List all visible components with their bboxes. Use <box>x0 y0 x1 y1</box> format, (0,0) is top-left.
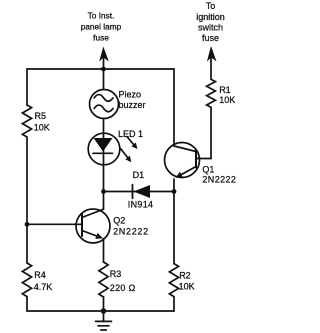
svg-text:ignition: ignition <box>196 12 225 22</box>
svg-text:R4: R4 <box>34 270 46 280</box>
svg-text:10K: 10K <box>179 282 195 292</box>
svg-text:To: To <box>206 1 216 11</box>
svg-text:Q2: Q2 <box>113 215 125 225</box>
svg-text:10K: 10K <box>219 95 235 105</box>
svg-text:buzzer: buzzer <box>119 100 146 110</box>
svg-text:10K: 10K <box>34 123 50 133</box>
svg-text:R1: R1 <box>219 85 231 95</box>
svg-text:220 Ω: 220 Ω <box>110 283 136 293</box>
svg-text:LED 1: LED 1 <box>118 129 143 139</box>
svg-text:R2: R2 <box>179 271 191 281</box>
svg-text:D1: D1 <box>133 170 145 180</box>
svg-text:Piezo: Piezo <box>119 90 142 100</box>
svg-text:R3: R3 <box>110 269 122 279</box>
svg-text:switch: switch <box>198 23 223 33</box>
svg-text:fuse: fuse <box>93 33 109 43</box>
svg-text:IN914: IN914 <box>128 200 154 210</box>
svg-text:R5: R5 <box>35 111 47 121</box>
svg-text:To Inst.: To Inst. <box>88 10 115 20</box>
svg-text:4.7K: 4.7K <box>34 282 53 292</box>
svg-text:panel lamp: panel lamp <box>81 22 122 32</box>
svg-text:Q1: Q1 <box>202 164 214 174</box>
svg-text:2N2222: 2N2222 <box>113 226 149 236</box>
svg-text:fuse: fuse <box>202 33 219 43</box>
svg-text:2N2222: 2N2222 <box>202 175 236 185</box>
